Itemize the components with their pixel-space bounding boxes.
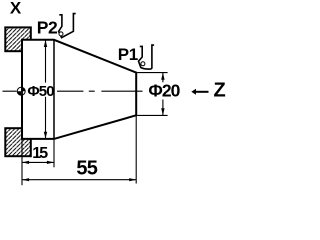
svg-text:P1: P1 — [118, 45, 138, 64]
dia20 extension lines — [137, 72, 168, 74]
tool at P2 — [59, 14, 76, 38]
svg-text:Φ20: Φ20 — [148, 80, 180, 100]
svg-text:P2: P2 — [37, 17, 58, 37]
extension line below boundary — [53, 139, 55, 167]
left face line over origin + extension below — [21, 85, 23, 99]
axis Z arrow — [195, 91, 209, 93]
dia20 dimension line — [162, 73, 164, 116]
workpiece outline — [22, 40, 136, 139]
svg-text:55: 55 — [76, 158, 97, 180]
dia50 label — [27, 83, 52, 97]
chuck jaw top — [5, 27, 31, 51]
centerline — [3, 90, 143, 92]
tool at P1 — [139, 45, 155, 69]
chuck jaw bottom — [5, 128, 31, 156]
svg-text:Φ50: Φ50 — [27, 83, 54, 100]
origin marker — [17, 87, 25, 95]
dia50 dimension line — [45, 41, 47, 139]
dim 15 line — [22, 161, 54, 163]
cylinder-cone boundary edge — [53, 40, 55, 139]
svg-text:15: 15 — [32, 145, 48, 162]
svg-text:Z: Z — [214, 80, 226, 102]
svg-text:X: X — [10, 0, 22, 18]
right face extension line — [135, 115, 137, 183]
dim 55 line — [22, 179, 136, 181]
